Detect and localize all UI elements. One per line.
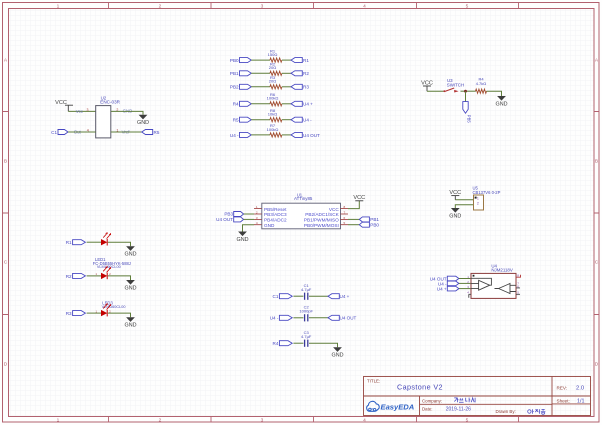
svg-text:PB1: PB1 <box>230 71 239 76</box>
net flag R3 <box>291 84 309 89</box>
U4 internal amps <box>469 278 520 297</box>
wire <box>348 224 359 226</box>
svg-text:C: C <box>595 260 599 266</box>
svg-text:4.7µF: 4.7µF <box>301 334 312 339</box>
svg-text:SWITCH: SWITCH <box>447 82 464 87</box>
wire <box>282 134 291 136</box>
svg-text:U4 +: U4 + <box>340 294 350 299</box>
net flag C1 <box>51 130 68 135</box>
resistor R7 100kΩ <box>267 123 282 137</box>
mcu U1 ATTiny85 body <box>262 193 341 229</box>
svg-text:3: 3 <box>261 4 264 10</box>
svg-text:Date:: Date: <box>422 407 433 412</box>
svg-text:D: D <box>595 362 599 368</box>
net flag U4 OUT (cap) <box>328 315 357 320</box>
wire <box>244 213 254 215</box>
net flag U4 + (opamp) <box>437 286 459 291</box>
wire <box>68 110 95 112</box>
svg-text:GND: GND <box>125 323 137 329</box>
svg-text:2: 2 <box>159 4 162 10</box>
svg-text:10kΩ: 10kΩ <box>268 112 277 117</box>
svg-text:1: 1 <box>57 417 60 423</box>
svg-text:NJM2118V: NJM2118V <box>491 268 512 273</box>
svg-text:GND: GND <box>332 353 344 359</box>
net flag R4 (cap) <box>273 341 293 346</box>
resistor R1 150Ω <box>268 48 282 62</box>
power flag VCC (U1) <box>353 195 365 201</box>
resistor R6 100kΩ <box>267 92 282 106</box>
svg-text:4.7µF: 4.7µF <box>301 287 312 292</box>
wire <box>309 317 328 319</box>
wire <box>487 91 502 96</box>
svg-text:R3: R3 <box>303 85 309 90</box>
op-amp U4 NJM2118V body <box>471 264 516 299</box>
power flag VCC (U2) <box>55 100 73 111</box>
sheet field <box>557 398 585 404</box>
svg-text:U4 OUT: U4 OUT <box>216 217 233 222</box>
U4 pin numbers <box>467 274 519 295</box>
wire <box>309 343 338 347</box>
svg-text:VCC: VCC <box>329 207 340 212</box>
svg-text:20Ω: 20Ω <box>269 65 276 70</box>
svg-text:1: 1 <box>477 196 479 200</box>
svg-text:R4: R4 <box>233 102 239 107</box>
svg-text:4: 4 <box>363 4 366 10</box>
svg-text:R1: R1 <box>303 58 309 63</box>
net flag R1 <box>291 58 309 63</box>
wire <box>282 86 291 88</box>
svg-text:GND: GND <box>137 120 149 126</box>
wire <box>87 312 101 314</box>
ground (switch) <box>496 96 508 107</box>
net flag PB0 <box>230 58 251 63</box>
net flag PB1 <box>230 71 251 76</box>
svg-text:VCC: VCC <box>449 190 461 196</box>
net flag R2 (led) <box>66 273 86 278</box>
wire <box>293 295 303 297</box>
svg-text:R1: R1 <box>66 240 72 245</box>
svg-text:U4 +: U4 + <box>437 287 447 292</box>
svg-text:C1: C1 <box>273 294 279 299</box>
svg-text:GND: GND <box>125 252 137 258</box>
LED3 labels <box>102 300 126 309</box>
ground (U2) <box>137 115 149 126</box>
wire <box>459 278 471 280</box>
net flag R3 (led) <box>66 311 86 316</box>
svg-text:ENC-03R: ENC-03R <box>100 100 120 105</box>
svg-text:ATTiny85: ATTiny85 <box>294 196 313 201</box>
wire <box>461 90 476 92</box>
svg-text:5: 5 <box>466 417 469 423</box>
svg-text:GND: GND <box>237 237 249 243</box>
gyro U2 body <box>96 95 121 137</box>
svg-text:GND: GND <box>264 223 275 228</box>
led LED1 <box>101 232 111 245</box>
svg-text:R3: R3 <box>66 311 72 316</box>
connector U5 body <box>473 186 501 210</box>
power flag VCC (U5) <box>449 190 461 200</box>
power flag VCC (switch) <box>421 80 433 91</box>
svg-text:U4 -: U4 - <box>303 118 312 123</box>
svg-text:U4 -: U4 - <box>230 133 239 138</box>
svg-text:150Ω: 150Ω <box>268 52 278 57</box>
led LED3 <box>96 303 112 316</box>
svg-text:PB1: PB1 <box>370 217 379 222</box>
led LED2 <box>96 266 112 279</box>
wire <box>108 276 131 280</box>
resistor R3 20Ω <box>269 75 282 89</box>
U2 pin names <box>74 108 133 134</box>
wire <box>348 218 359 220</box>
svg-text:PB4/ADC2: PB4/ADC2 <box>264 218 287 223</box>
net flag R4 <box>233 101 252 106</box>
svg-text:U4 OUT: U4 OUT <box>303 133 320 138</box>
resistor R2 20Ω <box>269 62 282 76</box>
svg-text:Capstone V2: Capstone V2 <box>397 383 443 392</box>
switch U3 <box>443 78 464 92</box>
svg-text:PB2: PB2 <box>230 85 239 90</box>
wire <box>251 59 270 61</box>
svg-text:Sheet:: Sheet: <box>557 398 570 403</box>
svg-text:U4 +: U4 + <box>303 102 313 107</box>
svg-text:VCC: VCC <box>421 80 433 86</box>
wire <box>465 91 467 101</box>
svg-text:R4: R4 <box>273 341 279 346</box>
svg-text:GND: GND <box>125 285 137 291</box>
wire <box>251 119 270 121</box>
svg-text:Vcc: Vcc <box>76 109 84 114</box>
svg-text:GND: GND <box>449 213 461 219</box>
wire <box>293 342 303 344</box>
wire <box>282 72 291 74</box>
U1 pin names <box>264 207 340 228</box>
net flag U4 OUT (opamp) <box>430 276 459 281</box>
svg-text:EasyEDA: EasyEDA <box>381 403 415 412</box>
svg-text:Drawn By:: Drawn By: <box>496 409 516 414</box>
drawn-by field <box>496 409 546 414</box>
svg-text:PB3/ADC3: PB3/ADC3 <box>264 212 287 217</box>
svg-text:R2: R2 <box>303 71 309 76</box>
wire <box>293 317 303 319</box>
wire <box>87 241 101 243</box>
svg-text:2019-11-26: 2019-11-26 <box>446 407 471 413</box>
net flag PB0 <box>359 222 379 227</box>
U4 V+ pin <box>516 275 521 277</box>
svg-text:PB1/PWM/MISO: PB1/PWM/MISO <box>304 218 339 223</box>
capacitor C1 4.7uF <box>301 283 312 300</box>
wire <box>108 242 131 246</box>
net flag U4 + <box>291 101 313 106</box>
svg-text:U4 -: U4 - <box>270 316 279 321</box>
U5 pin numbers <box>477 196 479 205</box>
wire <box>282 119 291 121</box>
wire <box>348 201 359 209</box>
ground (LED2) <box>125 280 137 291</box>
svg-text:5: 5 <box>466 4 469 10</box>
wire <box>111 131 142 133</box>
LED1 labels <box>93 257 131 269</box>
ground (LED1) <box>125 246 137 257</box>
wire <box>309 295 328 297</box>
wire <box>244 218 254 220</box>
net flag R5 <box>233 117 252 122</box>
svg-text:GND: GND <box>496 101 508 107</box>
svg-text:VCC: VCC <box>353 195 365 201</box>
wire <box>282 103 291 105</box>
svg-text:Company:: Company: <box>422 398 442 403</box>
wire <box>251 72 270 74</box>
wire <box>282 59 291 61</box>
ground (LED3) <box>125 317 137 328</box>
net flag U4 OUT <box>291 132 320 137</box>
net flag R5 <box>142 130 160 135</box>
wire <box>68 131 96 133</box>
ground (U1) <box>237 232 249 243</box>
wire <box>427 90 444 92</box>
net flag U4 - (opamp) <box>438 281 459 286</box>
svg-text:R5: R5 <box>233 118 239 123</box>
junction <box>464 90 467 93</box>
svg-text:100kΩ: 100kΩ <box>267 96 279 101</box>
net flag R1 (led) <box>66 240 86 245</box>
svg-text:PB2/ADC1/SCK: PB2/ADC1/SCK <box>305 212 339 217</box>
wire <box>243 225 255 232</box>
svg-text:4.7kΩ: 4.7kΩ <box>476 81 487 86</box>
wire <box>251 86 270 88</box>
net flag U4 - (cap) <box>270 315 292 320</box>
capacitor C3 4.7uF <box>301 330 312 347</box>
svg-text:TITLE:: TITLE: <box>367 379 380 384</box>
svg-text:100kΩ: 100kΩ <box>267 127 279 132</box>
net flag PB1 <box>359 217 379 222</box>
svg-text:PB5/Reset: PB5/Reset <box>264 207 287 212</box>
svg-text:C1: C1 <box>51 130 57 135</box>
net flag PB2 <box>230 84 251 89</box>
net flag U4 OUT <box>216 217 243 222</box>
U2 pin numbers <box>87 108 119 133</box>
wire <box>455 199 473 201</box>
EasyEDA logo <box>367 401 415 411</box>
svg-text:PB3: PB3 <box>224 212 233 217</box>
svg-text:1: 1 <box>57 4 60 10</box>
date field <box>422 407 471 413</box>
svg-text:1000pF: 1000pF <box>299 308 313 313</box>
svg-text:PB0: PB0 <box>370 223 379 228</box>
svg-text:4: 4 <box>363 417 366 423</box>
wire <box>459 282 471 284</box>
svg-text:C: C <box>4 260 8 266</box>
net flag PB3 <box>224 212 243 217</box>
company field <box>422 398 475 404</box>
svg-text:3: 3 <box>261 417 264 423</box>
svg-text:REV:: REV: <box>557 385 568 390</box>
svg-text:1/1: 1/1 <box>577 399 585 405</box>
svg-text:3: 3 <box>87 108 89 112</box>
svg-text:VLMU60CL00: VLMU60CL00 <box>97 265 121 269</box>
wire <box>111 111 143 114</box>
rev field <box>557 385 585 391</box>
svg-text:R2: R2 <box>66 274 72 279</box>
wire <box>87 275 101 277</box>
svg-text:PB0: PB0 <box>230 58 239 63</box>
svg-text:PB0/PWM/MOSI: PB0/PWM/MOSI <box>304 223 339 228</box>
wire <box>251 134 270 136</box>
net flag U4 + (cap) <box>328 294 350 299</box>
title block <box>364 377 591 416</box>
wire <box>459 288 471 290</box>
svg-text:2: 2 <box>477 202 479 206</box>
net flag PB5 (down) <box>463 102 472 124</box>
ground (U5) <box>449 208 461 219</box>
net flag U4 - <box>291 117 312 122</box>
U1 pin stubs <box>254 209 348 225</box>
svg-text:2.0: 2.0 <box>576 386 584 392</box>
capacitor C2 1000pF <box>299 305 313 322</box>
U1 pin numbers <box>256 205 346 225</box>
net flag U4 - <box>230 132 251 137</box>
svg-text:CB137V6 0-2P: CB137V6 0-2P <box>473 190 501 195</box>
resistor R8 10kΩ <box>268 108 282 122</box>
svg-text:20Ω: 20Ω <box>269 79 276 84</box>
wire <box>108 313 131 317</box>
svg-text:PB5: PB5 <box>466 115 471 124</box>
resistor R4 4.7kΩ <box>476 77 487 94</box>
svg-text:2: 2 <box>159 417 162 423</box>
svg-text:R5: R5 <box>154 130 160 135</box>
svg-text:B: B <box>4 158 7 164</box>
svg-text:B: B <box>595 158 598 164</box>
net flag C1 (cap) <box>273 294 293 299</box>
net flag R2 <box>291 71 309 76</box>
wire <box>455 205 473 208</box>
svg-text:D: D <box>4 362 8 368</box>
ground (C3) <box>332 347 344 358</box>
svg-text:U4 OUT: U4 OUT <box>340 316 357 321</box>
wire <box>251 103 270 105</box>
